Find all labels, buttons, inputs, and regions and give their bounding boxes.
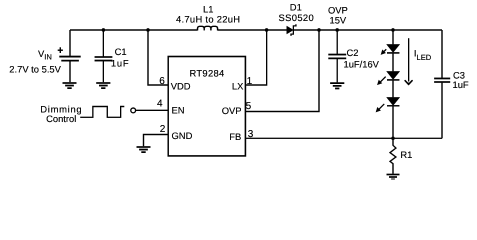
ground C2 xyxy=(330,83,344,88)
svg-text:D1: D1 xyxy=(290,1,302,12)
resistor R1 xyxy=(390,138,396,174)
svg-text:4.7uH to 22uH: 4.7uH to 22uH xyxy=(176,13,240,24)
inductor L1 xyxy=(198,26,218,30)
node FB/R1 junction xyxy=(391,137,394,140)
wire EN from control circle to pin 4 xyxy=(136,109,169,111)
wire FB pin 3 to LED/R1 junction and C3 xyxy=(245,137,442,139)
svg-text:LX: LX xyxy=(232,80,244,91)
svg-text:GND: GND xyxy=(172,130,193,141)
node LED/rail xyxy=(391,28,394,31)
capacitor C3 plates xyxy=(434,78,450,82)
svg-text:OVP: OVP xyxy=(222,105,242,116)
node OVP/rail xyxy=(317,28,320,31)
wire VDD branch from rail to pin 6 xyxy=(148,30,168,85)
wire C3 top lead from rail xyxy=(441,30,443,78)
svg-text:R1: R1 xyxy=(400,149,412,160)
svg-text:VDD: VDD xyxy=(171,80,191,91)
wire OVP pin 5 to rail xyxy=(245,30,319,112)
wire L1 to diode D1 anode xyxy=(218,29,287,31)
ground R1 xyxy=(387,175,400,180)
node LX/rail xyxy=(265,28,268,31)
node junction dots on top rail xyxy=(102,28,395,140)
node VDD/rail xyxy=(146,28,149,31)
IC U1 RT9284 body xyxy=(168,57,245,156)
capacitor C2 plates xyxy=(328,55,346,59)
svg-text:2: 2 xyxy=(160,124,166,135)
ground C1 xyxy=(96,83,110,88)
wire D1 cathode to C3 top xyxy=(293,29,442,31)
svg-text:15V: 15V xyxy=(330,15,347,26)
battery VIN plus sign xyxy=(58,47,63,53)
wire VIN negative lead xyxy=(69,61,71,82)
wire LED2 to LED3 xyxy=(392,80,394,98)
svg-text:Control: Control xyxy=(46,113,76,124)
svg-text:3: 3 xyxy=(248,129,254,140)
svg-text:1: 1 xyxy=(247,76,253,87)
svg-text:1uF: 1uF xyxy=(111,58,130,69)
svg-text:C2: C2 xyxy=(347,47,359,58)
svg-text:SS0520: SS0520 xyxy=(279,12,315,23)
svg-text:RT9284: RT9284 xyxy=(190,67,225,78)
LED D3 (middle of string) xyxy=(378,72,400,85)
current arrow I_LED xyxy=(408,38,410,81)
node C2/rail xyxy=(336,28,339,31)
svg-text:C1: C1 xyxy=(115,46,127,57)
ground VIN xyxy=(63,83,77,88)
wire LED string anode from rail xyxy=(392,30,394,45)
svg-text:1uF: 1uF xyxy=(453,79,469,90)
svg-text:FB: FB xyxy=(229,131,241,142)
dimming control open terminal circle xyxy=(131,108,136,113)
capacitor C1 plates xyxy=(95,57,113,61)
wire VIN positive lead xyxy=(69,30,71,56)
svg-text:5: 5 xyxy=(246,101,252,112)
svg-text:EN: EN xyxy=(172,105,185,116)
svg-text:VIN: VIN xyxy=(38,48,52,62)
svg-text:2.7V to 5.5V: 2.7V to 5.5V xyxy=(9,64,61,75)
wire top rail left (VIN to L1) xyxy=(70,29,198,31)
wire LX pin 1 to rail xyxy=(245,30,266,85)
battery VIN plates xyxy=(59,57,80,61)
wire LED1 to LED2 xyxy=(392,53,394,72)
wire C1 bottom lead xyxy=(102,61,104,83)
diode D1 SS0520 xyxy=(287,24,296,35)
ground GND pin xyxy=(137,147,151,152)
dimming control pulse waveform xyxy=(80,107,124,118)
wire C3 bottom lead down to FB line xyxy=(441,82,443,138)
wire GND pin 2 to ground xyxy=(144,135,169,147)
wire C2 bottom lead xyxy=(336,58,338,82)
wire C2 top lead xyxy=(336,30,338,55)
svg-text:4: 4 xyxy=(157,98,163,109)
node C1/rail xyxy=(102,28,105,31)
LED D2 (top of string) xyxy=(381,45,399,55)
svg-text:1uF/16V: 1uF/16V xyxy=(344,59,380,70)
svg-text:6: 6 xyxy=(159,76,165,87)
wire LED3 cathode to FB node xyxy=(392,106,394,138)
LED D4 (bottom of string) xyxy=(376,98,399,112)
svg-text:ILED: ILED xyxy=(414,47,432,61)
wire C1 top lead xyxy=(102,30,104,57)
current arrow I_LED arrowhead xyxy=(405,81,412,85)
